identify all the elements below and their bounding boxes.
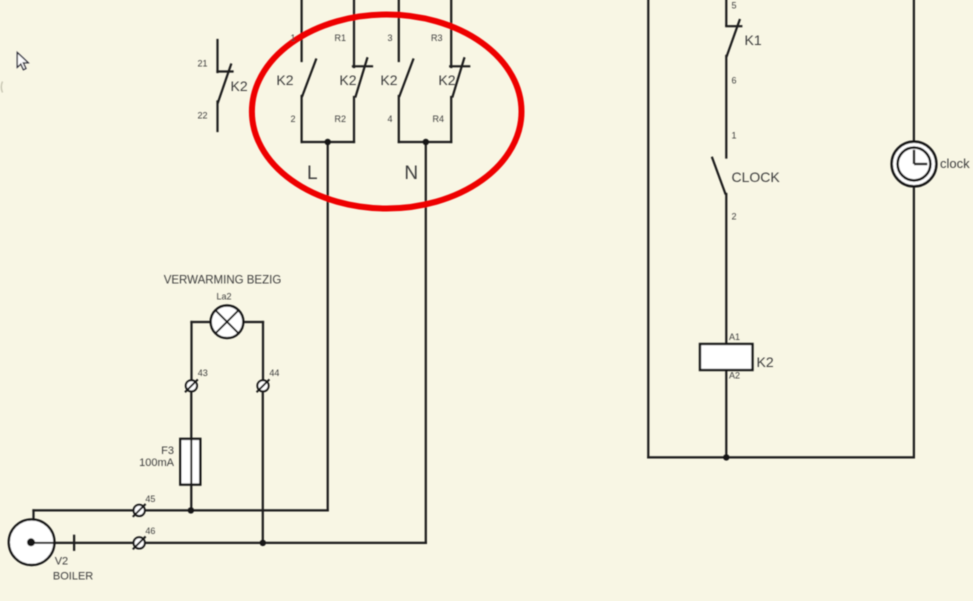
svg-text:A2: A2 bbox=[729, 371, 740, 381]
svg-text:N: N bbox=[404, 163, 418, 184]
svg-text:2: 2 bbox=[732, 212, 737, 222]
svg-text:R1: R1 bbox=[334, 33, 346, 43]
svg-text:V2: V2 bbox=[55, 556, 68, 568]
svg-text:44: 44 bbox=[269, 368, 279, 378]
svg-text:45: 45 bbox=[145, 494, 155, 504]
svg-text:43: 43 bbox=[198, 368, 208, 378]
svg-text:1: 1 bbox=[732, 131, 737, 141]
svg-text:2: 2 bbox=[290, 114, 295, 124]
svg-text:R4: R4 bbox=[432, 114, 444, 124]
svg-text:K2: K2 bbox=[380, 72, 397, 88]
svg-text:46: 46 bbox=[145, 526, 155, 536]
svg-text:K2: K2 bbox=[757, 354, 774, 370]
svg-text:K2: K2 bbox=[438, 72, 455, 88]
svg-text:A1: A1 bbox=[729, 332, 740, 342]
svg-text:VERWARMING BEZIG: VERWARMING BEZIG bbox=[164, 275, 282, 287]
svg-text:R2: R2 bbox=[334, 114, 346, 124]
svg-text:R3: R3 bbox=[431, 33, 443, 43]
svg-text:K1: K1 bbox=[745, 32, 762, 48]
svg-text:100mA: 100mA bbox=[139, 457, 175, 469]
svg-text:22: 22 bbox=[197, 111, 207, 121]
svg-text:1: 1 bbox=[290, 33, 295, 43]
svg-text:BOILER: BOILER bbox=[53, 571, 93, 583]
svg-text:21: 21 bbox=[197, 59, 207, 69]
svg-text:La2: La2 bbox=[216, 292, 231, 302]
svg-text:clock: clock bbox=[940, 156, 970, 171]
svg-text:K2: K2 bbox=[276, 72, 293, 88]
svg-text:K2: K2 bbox=[339, 72, 356, 88]
svg-text:6: 6 bbox=[732, 76, 737, 86]
svg-text:4: 4 bbox=[387, 114, 392, 124]
svg-text:CLOCK: CLOCK bbox=[732, 169, 781, 185]
svg-text:L: L bbox=[307, 163, 318, 184]
svg-text:3: 3 bbox=[387, 33, 392, 43]
svg-text:K2: K2 bbox=[231, 78, 248, 94]
svg-text:5: 5 bbox=[732, 1, 737, 11]
svg-text:F3: F3 bbox=[161, 445, 174, 457]
